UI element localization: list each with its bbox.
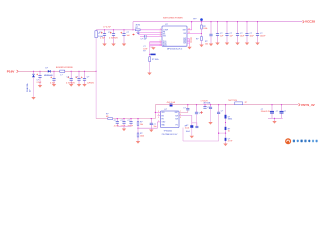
capacitor C21 near U2	[150, 118, 157, 130]
wire input cap rail	[96, 29, 133, 31]
wire U2 VIN stub	[155, 111, 160, 113]
resistor R5 inline	[106, 113, 155, 119]
wire P16V riser	[95, 30, 97, 72]
svg-text:PS-PWM BUCK 4V: PS-PWM BUCK 4V	[162, 134, 178, 136]
svg-text:C?: C?	[114, 120, 116, 122]
resistor R6 divider top	[137, 118, 143, 133]
svg-text:SWITCHING POWER: SWITCHING POWER	[163, 18, 183, 20]
capacitor C8	[216, 21, 224, 42]
ground C11	[245, 43, 249, 46]
capacitor C12	[256, 21, 266, 42]
node VIN_4V port	[167, 101, 176, 106]
svg-text:TP?: TP?	[193, 19, 196, 21]
capacitor C26	[203, 104, 209, 109]
svg-text:10n: 10n	[154, 126, 157, 128]
svg-text:R?: R?	[143, 51, 145, 53]
wire VIN corner riser	[154, 105, 156, 119]
wire output gnd bar	[268, 117, 283, 119]
ground output	[272, 121, 276, 124]
node riser junction	[96, 71, 97, 72]
svg-text:MP4560DN-LF-Z: MP4560DN-LF-Z	[167, 48, 183, 50]
svg-text:8: 8	[160, 44, 161, 46]
resistor R8 snubber	[225, 127, 231, 138]
inductor L1 ferrite bead	[56, 67, 74, 76]
capacitor C27	[209, 104, 212, 122]
svg-text:R?: R?	[245, 102, 247, 104]
ground U1 right pins	[187, 47, 191, 50]
ground C23	[190, 136, 194, 139]
svg-text:C?: C?	[121, 120, 123, 122]
svg-text:4: 4	[160, 35, 161, 37]
capacitor C20	[128, 118, 134, 128]
node VFB	[132, 34, 135, 36]
ground snubber	[223, 144, 227, 147]
svg-text:11: 11	[190, 42, 192, 44]
wire bottom input rail	[96, 118, 107, 120]
node plus marks input caps	[50, 77, 52, 79]
inductor L2	[235, 102, 243, 105]
node plus mark	[200, 111, 203, 114]
svg-text:8: 8	[180, 117, 181, 119]
ground C17	[82, 84, 86, 87]
pin numbers U2	[158, 111, 181, 123]
svg-text:15: 15	[188, 32, 190, 34]
ground cap bank	[122, 129, 126, 132]
wire U1 EN	[187, 33, 202, 35]
wire U1 lower-left pins	[150, 42, 162, 48]
svg-text:C?: C?	[284, 111, 286, 113]
svg-text:MBRA340: MBRA340	[44, 74, 53, 77]
ground under C3	[122, 44, 126, 47]
ground D1	[31, 97, 35, 100]
svg-text:U?: U?	[164, 109, 168, 111]
svg-text:100nF: 100nF	[260, 35, 266, 37]
ground C15	[69, 84, 73, 87]
svg-text:744777920: 744777920	[228, 100, 237, 102]
svg-text:10k: 10k	[205, 43, 208, 45]
capacitor C3	[122, 29, 130, 43]
svg-text:4.7uF: 4.7uF	[114, 126, 120, 128]
svg-text:10: 10	[228, 131, 230, 133]
logo strip	[285, 138, 318, 144]
ground under C2	[111, 44, 115, 47]
svg-text:1uF: 1uF	[220, 35, 224, 37]
capacitor C5 comp inline	[140, 35, 162, 40]
resistor R7 divider bottom	[137, 128, 144, 141]
wire U1 gnd pins tie	[187, 39, 190, 47]
ground enable divider	[199, 45, 203, 48]
resistor R3 enable top	[201, 22, 208, 34]
ground divider	[136, 141, 140, 144]
svg-text:49.9k: 49.9k	[136, 25, 141, 27]
ground under C1	[102, 44, 106, 47]
capacitor C2	[108, 29, 118, 43]
svg-text:1uF/50V: 1uF/50V	[87, 82, 95, 84]
svg-text:VSYS_4V: VSYS_4V	[301, 103, 316, 107]
svg-text:100k: 100k	[140, 135, 144, 137]
capacitor C11	[245, 21, 254, 42]
capacitor C7 bypass x211	[205, 21, 213, 45]
svg-text:C? 4.7uF: C? 4.7uF	[103, 26, 112, 28]
capacitor C25 mid	[195, 104, 201, 126]
svg-text:2: 2	[160, 31, 161, 33]
svg-text:SW: SW	[183, 43, 186, 45]
capacitor C10	[236, 21, 245, 42]
svg-text:C?: C?	[128, 120, 130, 122]
svg-text:10k: 10k	[140, 124, 143, 126]
svg-text:D?: D?	[46, 67, 48, 69]
capacitor C16	[76, 71, 81, 84]
ground C14	[52, 84, 56, 87]
diode D1 TVS	[26, 71, 35, 97]
node VCC28 port	[303, 20, 316, 24]
op-amp U2 buck regulator IC	[161, 109, 180, 136]
svg-text:1uF: 1uF	[230, 35, 234, 37]
svg-text:C?: C?	[87, 77, 89, 79]
svg-text:4.7nF: 4.7nF	[228, 141, 233, 143]
resistor R2 chain	[149, 54, 159, 62]
svg-text:SW: SW	[175, 115, 178, 117]
capacitor C31 output	[276, 104, 286, 118]
diode D3 freewheel	[225, 104, 233, 127]
diode D2 series	[44, 67, 53, 76]
wire cap common bar	[117, 125, 131, 127]
svg-text:1uF: 1uF	[127, 35, 131, 37]
capacitor C13 input	[37, 71, 43, 85]
svg-text:4.7uF: 4.7uF	[121, 126, 127, 128]
svg-text:10.0k: 10.0k	[185, 127, 189, 129]
capacitor C18	[114, 118, 120, 128]
wire comp pin3	[138, 33, 162, 35]
svg-text:5: 5	[158, 117, 159, 119]
capacitor C6 soft start chain	[143, 46, 149, 72]
svg-text:SS34: SS34	[228, 119, 232, 121]
capacitor C23 bst chain	[179, 116, 198, 136]
svg-text:C? 1nF: C? 1nF	[141, 39, 148, 41]
svg-text:L?: L?	[61, 74, 63, 76]
node FB junction	[132, 29, 133, 30]
node plus marks caps	[101, 32, 103, 34]
ground C27	[208, 122, 212, 125]
svg-text:PG4: PG4	[163, 45, 166, 47]
resistor R1 feedback	[133, 25, 162, 31]
capacitor C17	[83, 71, 95, 85]
wire FB tap	[138, 122, 157, 128]
svg-text:4.7uF: 4.7uF	[100, 37, 106, 39]
node P16V port	[7, 70, 18, 74]
ground C8	[215, 43, 219, 46]
ground C13	[38, 85, 42, 88]
capacitor C4 comp	[137, 32, 139, 33]
node VSYS port	[299, 103, 316, 107]
ground C7	[209, 44, 213, 47]
svg-text:R?: R?	[196, 39, 198, 41]
resistor R4 enable bottom	[196, 34, 202, 45]
fuse F1 inline riser	[95, 31, 98, 38]
capacitor C14	[50, 71, 56, 85]
svg-text:SW: SW	[175, 119, 178, 121]
ground U1 corner	[150, 46, 154, 48]
capacitor C15	[66, 71, 75, 85]
svg-text:2.2uF: 2.2uF	[37, 82, 43, 84]
svg-text:10uF: 10uF	[186, 131, 191, 133]
svg-text:220uF/6.3V: 220uF/6.3V	[261, 111, 271, 113]
wire riser to bottom rail	[95, 71, 97, 118]
ground C16	[77, 84, 81, 87]
svg-text:1: 1	[160, 28, 161, 30]
svg-text:4R7 25A: 4R7 25A	[203, 102, 211, 105]
test point TP1	[193, 18, 203, 22]
svg-text:4.7uF/50V: 4.7uF/50V	[109, 37, 118, 39]
capacitor C19	[121, 118, 127, 128]
capacitor C22b on SW riser	[186, 107, 189, 109]
ground C12	[255, 43, 259, 46]
svg-text:BST: BST	[175, 112, 178, 114]
wire snubber junction	[219, 132, 226, 134]
ground C10	[235, 43, 239, 46]
wire P16V main	[18, 70, 96, 72]
svg-text:P16V: P16V	[7, 70, 16, 74]
wire VSYS rail	[155, 104, 298, 106]
ground chain bottom	[147, 73, 151, 76]
wire U2 SW up to rail	[179, 110, 188, 112]
svg-text:100k: 100k	[203, 28, 207, 30]
wire bottom return rail	[183, 133, 219, 141]
svg-text:D?: D?	[30, 90, 32, 92]
svg-text:VCC28: VCC28	[305, 20, 315, 24]
ground C21	[149, 130, 153, 133]
svg-text:BLM18PG121SN1D: BLM18PG121SN1D	[56, 67, 74, 69]
capacitor C30 output	[261, 104, 274, 118]
svg-text:C?: C?	[183, 108, 185, 110]
capacitor C9	[225, 21, 233, 42]
svg-text:3: 3	[160, 33, 161, 35]
svg-text:C?: C?	[221, 111, 223, 113]
svg-text:C?: C?	[276, 111, 278, 113]
capacitor C24 cluster	[183, 125, 189, 141]
ground C9	[225, 43, 229, 46]
capacitor C28 snubber	[225, 138, 234, 144]
pin numbers U1 left	[160, 28, 192, 46]
wire feedback drop	[132, 22, 134, 30]
svg-text:C?: C?	[76, 77, 78, 79]
svg-text:10uF: 10uF	[240, 35, 245, 37]
svg-text:C?: C?	[127, 32, 129, 34]
capacitor C27b chain x218.6	[217, 104, 223, 133]
wire U2 left pin stubs	[158, 116, 161, 122]
wire U1 BST to rail	[187, 22, 192, 30]
wire comp pin2	[136, 31, 162, 33]
svg-text:100nF: 100nF	[128, 126, 134, 128]
svg-text:BST: BST	[183, 30, 186, 32]
svg-text:10uF: 10uF	[250, 35, 255, 37]
svg-text:TPS54302: TPS54302	[164, 130, 173, 132]
op-amp U1 switching regulator IC	[162, 18, 187, 51]
svg-text:R? 100k: R? 100k	[152, 59, 159, 61]
capacitor C1	[99, 26, 112, 43]
wire VCC28 top rail	[133, 21, 302, 23]
